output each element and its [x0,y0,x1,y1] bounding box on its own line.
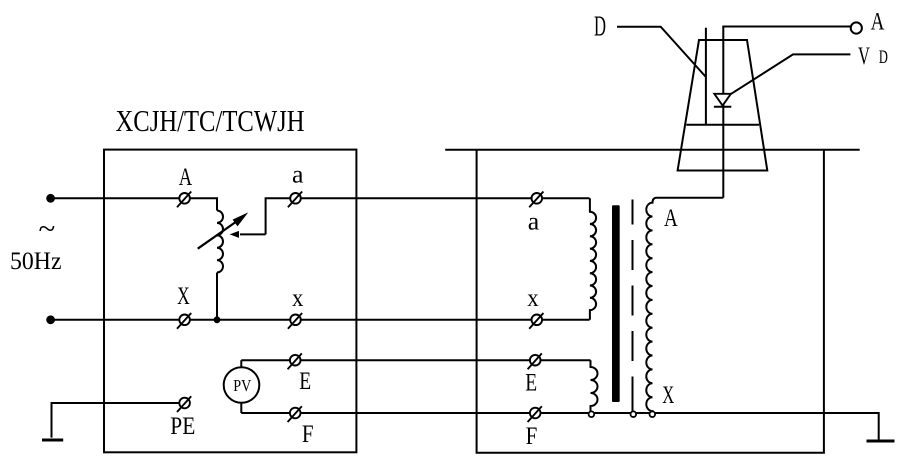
variac tap arrow head [230,231,239,238]
ground symbol right [867,440,895,443]
VD label pointer line [731,54,850,93]
svg-text:X: X [177,283,190,310]
wire F row bottom bus to right ground [241,413,878,440]
wire E row [241,359,590,361]
variac tap arrow wire [266,198,590,234]
svg-text:X: X [662,382,674,409]
variac tap arrow line [240,233,266,235]
terminal circle A top [851,22,862,33]
variac adjust arrow shaft [198,219,240,249]
PV meter branch wire [240,360,242,413]
terminal E left [288,353,302,369]
transformer core dashed line [632,200,634,407]
bushing conductor wire to A terminal [723,27,851,198]
svg-text:D: D [879,47,888,68]
svg-text:F: F [302,421,314,448]
svg-text:PV: PV [233,376,252,395]
terminal x [288,313,302,329]
transformer primary winding a-x [590,198,596,319]
terminal a right [529,192,543,208]
winding junction circle EF [589,411,595,417]
terminal A [177,192,191,208]
AC source terminal dot bottom [46,315,55,324]
winding junction circle secondary [650,411,656,417]
bushing electrode D line [705,28,707,125]
svg-text:x: x [527,285,539,312]
transformer core dashed line bottom segment [632,404,634,411]
variac adjust arrow head [233,212,249,226]
svg-text:V: V [858,43,870,70]
bushing trapezoid [678,40,768,171]
terminal F right [528,406,542,422]
wire X row [51,319,590,321]
terminal a [288,192,302,208]
terminal E right [528,353,542,369]
PE wire [52,403,185,438]
transformer EF winding [591,360,598,411]
junction dot variac-X row [214,316,221,323]
AC source terminal dot top [46,194,55,203]
terminal PE [177,396,191,412]
svg-text:50Hz: 50Hz [10,248,62,275]
svg-text:D: D [594,12,606,43]
svg-text:PE: PE [170,413,195,440]
svg-text:A: A [664,205,678,232]
wire variac bottom stub [216,273,218,320]
svg-text:A: A [871,8,885,35]
transformer secondary winding A-X [646,198,723,412]
bushing flange line [686,124,759,126]
winding junction circle core [631,411,637,417]
ground symbol left [42,439,63,442]
transformer box [445,150,860,453]
wire A row [51,198,217,210]
svg-text:XCJH/TC/TCWJH: XCJH/TC/TCWJH [116,103,305,138]
svg-text:a: a [528,209,540,236]
svg-text:E: E [525,370,537,397]
svg-text:A: A [179,164,192,191]
svg-text:~: ~ [39,211,56,246]
svg-text:F: F [526,423,538,450]
svg-text:a: a [292,162,304,189]
control box [104,150,356,453]
PV meter [224,367,260,403]
terminal X [177,313,191,329]
svg-text:x: x [292,285,304,312]
transformer core bar [612,205,620,402]
diode VD cathode bar [714,106,731,108]
D label pointer line [617,27,706,77]
terminal F left [288,406,302,422]
diode VD triangle [714,94,731,106]
svg-text:E: E [299,368,311,395]
variac winding T1 [217,211,223,273]
terminal x right [529,313,543,329]
